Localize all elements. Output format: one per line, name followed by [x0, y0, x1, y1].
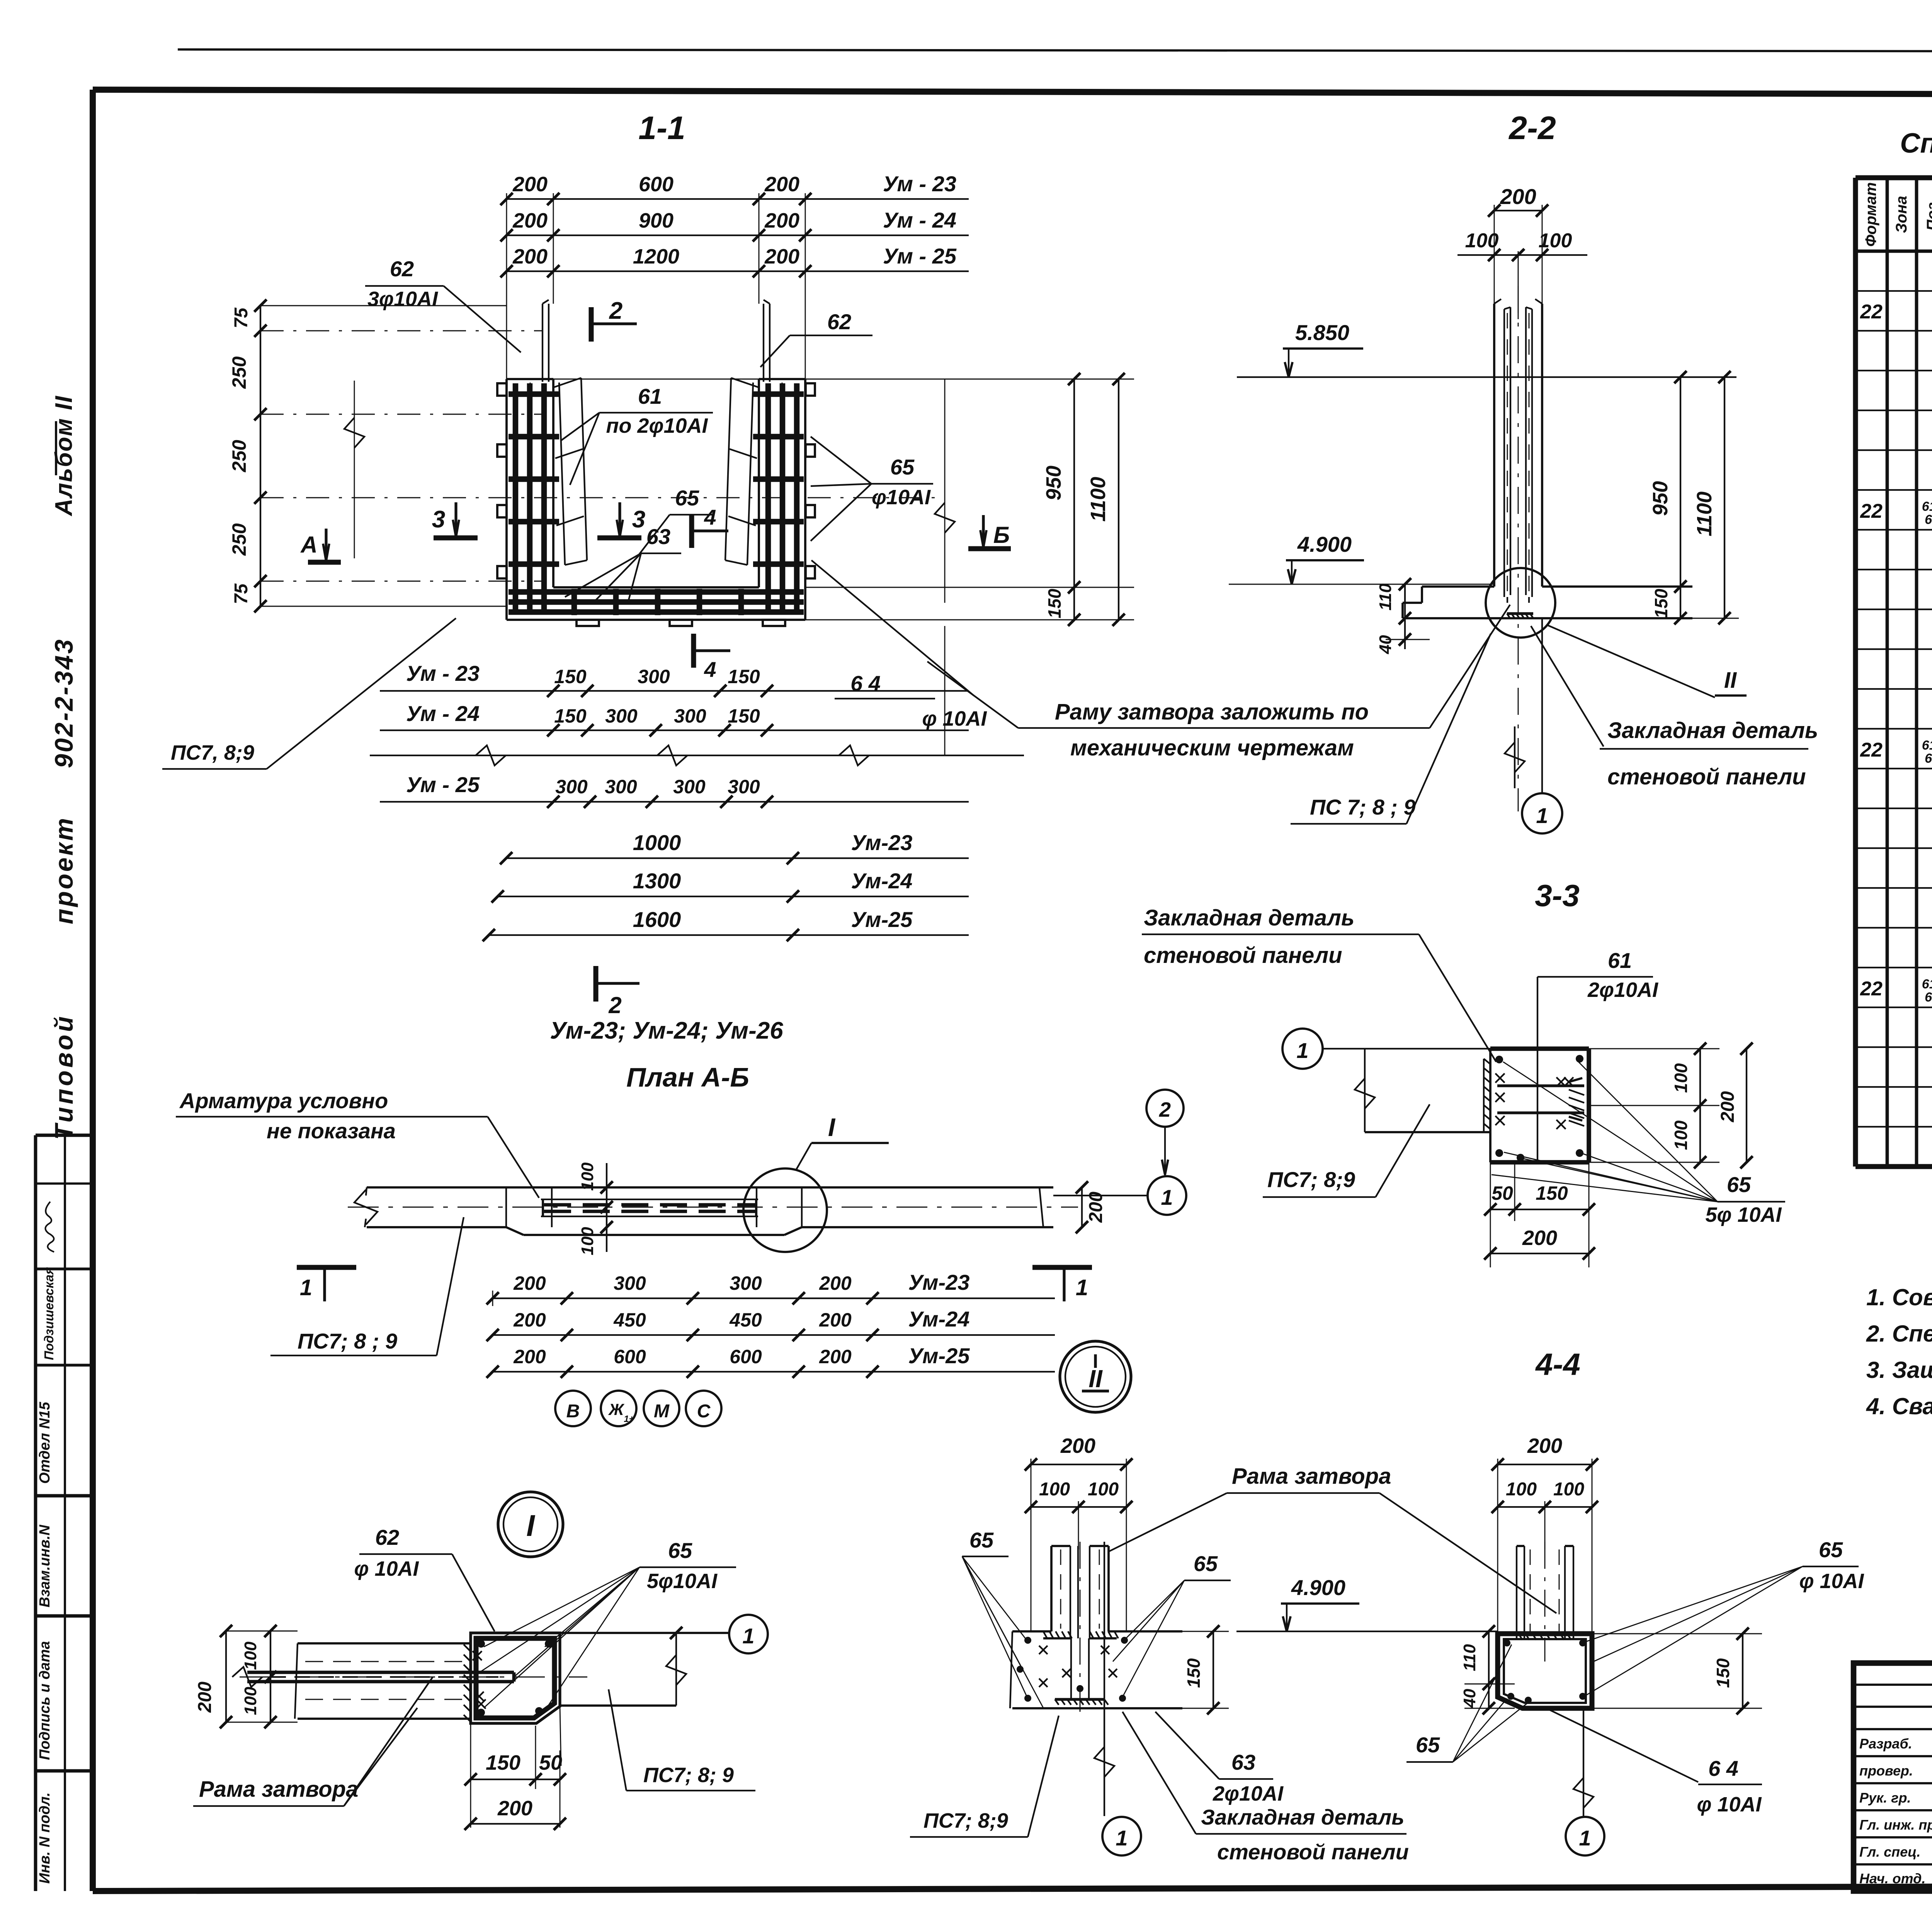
view 1-1 top dimension chain row Um-24	[507, 235, 805, 236]
svg-text:Гл. инж. пр.: Гл. инж. пр.	[1859, 1817, 1932, 1833]
svg-text:ПС7; 8;9: ПС7; 8;9	[1267, 1167, 1355, 1192]
svg-text:600: 600	[639, 173, 673, 196]
view 4-4 right wall panels	[1517, 1546, 1573, 1638]
view 2-2 left dim 110 40	[1404, 584, 1406, 618]
view 3-3 slab left part	[1364, 1049, 1366, 1132]
detail I grid circle 1	[729, 1615, 768, 1653]
svg-text:Ум - 25: Ум - 25	[406, 772, 480, 797]
view 4-4 left wall panels	[1051, 1546, 1109, 1638]
view 4-4 right dim 200	[1498, 1464, 1592, 1465]
view 2-2 embedded plate hatch	[1507, 614, 1533, 618]
svg-text:3. Защитный слой бето: 3. Защитный слой бетона - 25 мм	[1866, 1357, 1932, 1383]
plan right end dim 200	[1081, 1187, 1083, 1227]
svg-text:110: 110	[1460, 1644, 1479, 1671]
svg-text:100: 100	[1465, 230, 1499, 252]
svg-text:22: 22	[1860, 978, 1883, 1000]
svg-text:63: 63	[1231, 1750, 1255, 1774]
svg-text:ПС 7; 8 ; 9: ПС 7; 8 ; 9	[1310, 795, 1416, 819]
view 3-3 hatch strip at joint	[1484, 1059, 1490, 1132]
svg-text:Инв. N подл.: Инв. N подл.	[37, 1793, 53, 1884]
svg-text:110: 110	[1376, 583, 1395, 611]
svg-text:65: 65	[1819, 1537, 1843, 1562]
svg-text:450: 450	[729, 1309, 762, 1331]
view 1-1 inner formwork slant panels	[559, 383, 565, 565]
view 1-1 rebar bottom slab	[509, 589, 804, 615]
svg-text:61: 61	[1608, 948, 1632, 973]
view 1-1 U-channel outline	[507, 379, 805, 620]
svg-text:2: 2	[609, 298, 622, 324]
svg-text:150: 150	[1044, 588, 1065, 618]
svg-text:600: 600	[614, 1346, 646, 1367]
view 4-4 right block hatch top	[1519, 1634, 1571, 1640]
svg-text:902-2-343: 902-2-343	[49, 638, 78, 768]
view 1-1 overall dim 1600 Um-25	[489, 934, 793, 936]
svg-text:50: 50	[539, 1751, 562, 1774]
svg-text:300: 300	[730, 1272, 762, 1294]
svg-text:стеновой панели: стеновой панели	[1217, 1840, 1409, 1864]
svg-text:Ж: Ж	[608, 1400, 625, 1418]
svg-text:100: 100	[1506, 1479, 1537, 1500]
svg-text:300: 300	[673, 776, 706, 798]
svg-text:II: II	[1724, 668, 1737, 693]
svg-text:Подзишевская: Подзишевская	[42, 1267, 56, 1360]
svg-text:Арматура условно: Арматура условно	[179, 1088, 388, 1113]
svg-text:40: 40	[1460, 1689, 1479, 1708]
view 3-3 monolithic block outline	[1490, 1049, 1589, 1162]
svg-text:62: 62	[827, 310, 851, 334]
svg-text:1. Совместно с данным с: 1. Совместно с данным см. л.л. КЖ - 53.	[1866, 1284, 1932, 1310]
svg-text:Рук. гр.: Рук. гр.	[1859, 1790, 1911, 1806]
svg-text:300: 300	[674, 705, 706, 727]
svg-text:Закладная деталь: Закладная деталь	[1144, 905, 1354, 930]
svg-text:1300: 1300	[633, 869, 681, 893]
svg-text:механическим чертежам: механическим чертежам	[1070, 735, 1354, 760]
view 4-4 left dim 200	[1031, 1464, 1126, 1465]
svg-text:2. Спецификацию и выборку: 2. Спецификацию и выборку арматуры см. л…	[1866, 1321, 1932, 1347]
section mark A	[308, 560, 341, 565]
svg-text:ПС7; 8 ; 9: ПС7; 8 ; 9	[298, 1329, 397, 1353]
svg-text:Ум - 25: Ум - 25	[883, 244, 957, 268]
plan detail I circle	[743, 1168, 827, 1252]
plan dim row Um-23	[493, 1298, 872, 1299]
svg-text:200: 200	[513, 1309, 546, 1331]
svg-text:61÷: 61÷	[1922, 977, 1932, 992]
section mark 4 lower	[691, 634, 696, 668]
detail I anchor bars into square	[247, 1672, 514, 1682]
view 4-4 left dim 100 100	[1031, 1506, 1126, 1508]
svg-text:22: 22	[1860, 500, 1883, 522]
svg-text:I: I	[526, 1509, 535, 1543]
title block outline	[1854, 1663, 1932, 1891]
section mark B right	[968, 546, 1011, 551]
plan dim row Um-24	[493, 1334, 872, 1336]
view 3-3 dim 200 below	[1490, 1253, 1589, 1254]
svg-text:950: 950	[1649, 481, 1672, 516]
view 3-3 rebar dots	[1495, 1056, 1503, 1063]
svg-text:Закладная деталь: Закладная деталь	[1201, 1805, 1404, 1829]
svg-text:5φ10АI: 5φ10АI	[647, 1570, 718, 1593]
view 1-1 overall dim 1300 Um-24	[498, 896, 793, 897]
view 4-4 right grid circle 1	[1566, 1817, 1604, 1855]
svg-text:150: 150	[554, 666, 587, 687]
section mark 3 left	[434, 536, 478, 541]
plan section mark 1 right	[1032, 1265, 1092, 1270]
svg-text:200: 200	[513, 1272, 546, 1294]
svg-text:65: 65	[1416, 1733, 1440, 1757]
svg-text:1: 1	[1296, 1038, 1308, 1063]
svg-text:100: 100	[1671, 1120, 1691, 1150]
view 1-1 top dimension chain row Um-25	[507, 270, 805, 272]
svg-text:65: 65	[675, 486, 699, 510]
svg-text:4. Сварку производить эле: 4. Сварку производить электродами Э42, Г…	[1866, 1393, 1932, 1419]
plan right break	[1039, 1187, 1043, 1227]
svg-text:по 2φ10АI: по 2φ10АI	[606, 414, 708, 437]
svg-text:Ум-23: Ум-23	[851, 830, 913, 855]
view 3-3 bars 2f10AI	[1497, 1084, 1584, 1087]
svg-text:63: 63	[646, 524, 670, 549]
view 1-1 left wall form tabs	[497, 383, 507, 396]
detail I monolithic square outline	[471, 1633, 560, 1723]
plan dim 100 100 vertical	[606, 1163, 607, 1252]
svg-text:ПС7, 8;9: ПС7, 8;9	[171, 741, 254, 764]
svg-text:I: I	[828, 1113, 836, 1141]
svg-text:Ум-24: Ум-24	[908, 1307, 970, 1331]
svg-text:ПС7; 8;9: ПС7; 8;9	[923, 1809, 1008, 1832]
svg-text:100: 100	[1671, 1063, 1691, 1093]
view 3-3 dim 200 right	[1746, 1049, 1747, 1162]
view 1-1 slab support tabs	[577, 620, 599, 626]
view 2-2 right dim 1100	[1724, 377, 1725, 618]
svg-text:250: 250	[228, 440, 250, 473]
detail I chamfer corner extension	[560, 1706, 561, 1766]
view 4-4 left grid circle 1	[1102, 1817, 1141, 1855]
svg-text:75: 75	[231, 307, 252, 328]
plan axis circles V Zh M S	[555, 1391, 591, 1426]
view 4-4 right dim 150	[1592, 1633, 1762, 1634]
svg-text:Нач. отд.: Нач. отд.	[1859, 1871, 1925, 1886]
svg-text:100: 100	[241, 1641, 260, 1670]
view 2-2 dim 200 top	[1494, 210, 1542, 211]
svg-text:300: 300	[555, 776, 588, 798]
view 1-1 left dimension chain 75-250-250-250-75	[260, 306, 261, 606]
svg-text:4.900: 4.900	[1297, 532, 1352, 556]
svg-text:Ум-25: Ум-25	[908, 1344, 970, 1368]
svg-text:Поз.: Поз.	[1924, 198, 1932, 231]
svg-text:1: 1	[742, 1624, 754, 1648]
view 1-1 rebar cage left wall	[509, 383, 559, 614]
detail I precast wall left	[295, 1643, 471, 1719]
svg-text:Ум-23; Ум-24; Ум-26: Ум-23; Ум-24; Ум-26	[550, 1017, 783, 1044]
svg-text:2φ10АI: 2φ10АI	[1587, 978, 1658, 1002]
svg-text:200: 200	[1718, 1091, 1738, 1122]
svg-text:φ 10АI: φ 10АI	[1697, 1793, 1762, 1816]
svg-text:300: 300	[605, 776, 637, 798]
svg-text:Ум-25: Ум-25	[851, 907, 913, 932]
svg-text:200: 200	[819, 1309, 852, 1331]
plan rebar bundle	[541, 1199, 758, 1216]
view 4-4 right wall dashed centerline	[1544, 1542, 1546, 1662]
svg-text:1: 1	[1161, 1185, 1173, 1209]
svg-text:1+: 1+	[624, 1414, 634, 1424]
svg-text:200: 200	[512, 245, 548, 268]
plan left end break	[354, 1190, 378, 1225]
svg-text:Взам.инв.N: Взам.инв.N	[37, 1524, 53, 1607]
svg-text:План А-Б: План А-Б	[626, 1062, 749, 1092]
detail I joint hatch	[464, 1645, 471, 1722]
detail circle I marker	[498, 1492, 563, 1557]
view 1-1 right wall form tabs	[806, 383, 815, 396]
view 4-4 right block rebar dots	[1503, 1639, 1510, 1646]
svg-text:Б: Б	[993, 522, 1010, 548]
svg-text:стеновой панели: стеновой панели	[1144, 943, 1342, 968]
svg-text:С: С	[697, 1401, 711, 1422]
svg-text:150: 150	[486, 1751, 520, 1774]
stamp label signature squiggle	[45, 1202, 54, 1252]
view 2-2 frame inner dashed lines	[1507, 313, 1508, 593]
svg-text:200: 200	[1060, 1434, 1095, 1458]
svg-text:не показана: не показана	[267, 1119, 396, 1143]
svg-text:1: 1	[1579, 1826, 1591, 1850]
svg-text:В: В	[566, 1401, 580, 1422]
svg-text:22: 22	[1860, 739, 1883, 761]
view 4-4 right dim 110 40 left side	[1488, 1631, 1490, 1708]
svg-text:150: 150	[728, 705, 760, 727]
svg-text:6 4: 6 4	[850, 671, 881, 696]
svg-text:62: 62	[390, 257, 414, 281]
view 4-4 left slab	[1010, 1631, 1182, 1708]
svg-text:65: 65	[969, 1528, 994, 1552]
svg-text:провер.: провер.	[1859, 1763, 1913, 1779]
svg-text:100: 100	[1553, 1479, 1584, 1500]
svg-text:100: 100	[241, 1687, 260, 1715]
detail circle II marker	[1060, 1341, 1131, 1412]
svg-text:Закладная деталь: Закладная деталь	[1607, 718, 1818, 743]
svg-text:900: 900	[639, 209, 673, 232]
view 4-4 left wall dashed lines	[1060, 1549, 1061, 1629]
view 2-2 wall centerline	[1518, 286, 1519, 811]
view 1-1 horizontal extension lines to left chain	[260, 305, 507, 306]
svg-text:150: 150	[1713, 1658, 1733, 1688]
svg-text:200: 200	[512, 173, 548, 196]
svg-text:Ум - 24: Ум - 24	[883, 208, 956, 232]
svg-text:1200: 1200	[633, 245, 679, 268]
spec table grid	[1855, 178, 1932, 1167]
svg-text:ПС7; 8; 9: ПС7; 8; 9	[643, 1764, 734, 1787]
svg-text:4: 4	[704, 657, 716, 682]
detail I right wall	[560, 1632, 729, 1634]
detail I dim 200	[471, 1823, 560, 1825]
svg-text:450: 450	[613, 1309, 646, 1331]
plan grid circle 2 top	[1146, 1090, 1184, 1127]
svg-text:φ10АI: φ10АI	[872, 486, 931, 509]
svg-text:65: 65	[1925, 990, 1932, 1005]
plan centerline	[348, 1207, 1078, 1208]
svg-text:3φ10АI: 3φ10АI	[367, 287, 438, 311]
svg-text:950: 950	[1042, 466, 1065, 500]
view 2-2 right dim 950	[1680, 377, 1681, 587]
svg-text:200: 200	[195, 1682, 215, 1713]
detail I square rebar dots	[477, 1640, 485, 1648]
svg-text:150: 150	[554, 705, 587, 727]
view 2-2 break mark below wall	[1514, 726, 1515, 788]
svg-text:61÷: 61÷	[1922, 499, 1932, 514]
svg-text:стеновой панели: стеновой панели	[1607, 764, 1806, 789]
svg-text:Гл. спец.: Гл. спец.	[1859, 1844, 1920, 1860]
view 1-1 dimension extension verticals	[506, 193, 507, 379]
svg-text:200: 200	[764, 245, 799, 268]
svg-text:6 4: 6 4	[1708, 1756, 1738, 1781]
view 1-1 wall centerline dashes	[530, 383, 531, 585]
view 2-2 detail circle II	[1486, 568, 1555, 638]
svg-text:Подпись и дата: Подпись и дата	[37, 1641, 53, 1760]
svg-text:100: 100	[1539, 230, 1572, 252]
view 4-4 left detail rebar dots	[1024, 1637, 1031, 1644]
svg-text:проект: проект	[49, 816, 78, 924]
view 4-4 dim 150 left detail	[1182, 1631, 1229, 1632]
svg-text:200: 200	[764, 209, 799, 232]
view 1-1 right dimension 1100	[1118, 379, 1119, 620]
svg-text:3: 3	[432, 506, 445, 533]
svg-text:Разраб.: Разраб.	[1859, 1736, 1912, 1752]
svg-text:Ум-24: Ум-24	[851, 869, 913, 893]
detail I left dim 100 100	[270, 1631, 271, 1722]
svg-text:5.850: 5.850	[1295, 320, 1349, 345]
svg-text:100: 100	[1088, 1479, 1119, 1500]
svg-text:100: 100	[1039, 1479, 1070, 1500]
svg-text:2φ10АI: 2φ10АI	[1213, 1782, 1284, 1805]
detail I left dim 200	[225, 1631, 227, 1722]
title block left rows	[1854, 1685, 1932, 1864]
plan section mark 1 left	[297, 1265, 356, 1270]
view 1-1 top dimension chain row Um-23	[507, 198, 805, 200]
svg-text:65: 65	[668, 1538, 692, 1563]
svg-text:200: 200	[819, 1272, 852, 1294]
view 3-3 grid circle 1	[1282, 1029, 1323, 1069]
label 64 with leader	[811, 560, 974, 696]
view 4-4 left detail section line down	[1104, 1542, 1105, 1816]
svg-text:200: 200	[1500, 184, 1536, 209]
view 1-1 right dimension 150	[1068, 614, 1080, 626]
svg-text:22: 22	[1860, 301, 1883, 323]
view 1-1 right dimension 950	[805, 379, 1134, 380]
plan joint verticals	[505, 1187, 507, 1227]
plan grid circle 1 right	[1148, 1176, 1186, 1215]
view 3-3 x marks	[1495, 1073, 1505, 1083]
view 4-4 left detail x marks	[1039, 1646, 1048, 1654]
svg-text:1600: 1600	[633, 907, 681, 932]
svg-text:2-2: 2-2	[1508, 110, 1556, 146]
svg-text:3-3: 3-3	[1535, 878, 1580, 913]
plan dim row Um-25	[493, 1371, 872, 1372]
svg-text:А: А	[300, 532, 317, 558]
svg-text:Рама затвора: Рама затвора	[199, 1777, 358, 1802]
svg-text:Ум-23: Ум-23	[908, 1270, 970, 1294]
svg-text:Раму затвора заложить по: Раму затвора заложить по	[1055, 699, 1369, 724]
svg-text:Рама затвора: Рама затвора	[1232, 1464, 1391, 1489]
detail I centerline	[240, 1677, 587, 1678]
svg-text:75: 75	[231, 583, 252, 604]
svg-text:200: 200	[1522, 1226, 1557, 1250]
svg-text:65: 65	[1194, 1551, 1218, 1576]
svg-text:1100: 1100	[1087, 477, 1110, 522]
svg-text:65: 65	[890, 455, 915, 479]
svg-text:150: 150	[1536, 1182, 1568, 1204]
svg-text:250: 250	[228, 356, 250, 389]
svg-text:1: 1	[1076, 1275, 1088, 1300]
svg-text:Ум - 24: Ум - 24	[406, 701, 480, 726]
svg-text:φ 10АI: φ 10АI	[354, 1557, 419, 1580]
svg-text:300: 300	[614, 1272, 646, 1294]
view 2-2 grid circle 1 below	[1541, 618, 1543, 793]
svg-text:61: 61	[638, 384, 662, 408]
svg-text:200: 200	[497, 1797, 532, 1820]
svg-text:Отдел N15: Отдел N15	[37, 1401, 53, 1484]
view 3-3 dim 100 100 right	[1589, 1048, 1719, 1049]
svg-text:1: 1	[1536, 803, 1548, 828]
svg-text:200: 200	[1527, 1434, 1562, 1458]
view 2-2 embedded gate frame channels	[1504, 307, 1532, 603]
svg-text:2: 2	[1159, 1098, 1171, 1121]
view 2-2 wall outline	[1493, 304, 1495, 587]
svg-text:65: 65	[1727, 1172, 1751, 1197]
view 1-1 rebar cage right wall	[753, 383, 804, 614]
view 1-1 formwork panel lines left wall	[542, 304, 543, 382]
section mark 4 upper	[689, 514, 694, 548]
svg-text:Формат: Формат	[1862, 182, 1879, 247]
paper top edge dashed line	[178, 49, 1932, 51]
view 1-1 formwork panel lines right wall	[763, 304, 764, 382]
svg-text:Зона: Зона	[1893, 196, 1910, 233]
view 2-2 floor slab	[1403, 587, 1692, 618]
detail I wall inner lines	[305, 1661, 471, 1662]
view 1-1 overall dim 1000 Um-23	[506, 857, 793, 859]
svg-text:300: 300	[728, 776, 760, 798]
svg-text:Типовой: Типовой	[49, 1014, 78, 1140]
view 4-4 left detail hatch under wall	[1043, 1631, 1118, 1705]
view 3-3 dim 50 150 below	[1490, 1162, 1491, 1267]
svg-text:Альбом II: Альбом II	[51, 395, 77, 517]
view 2-2 right dim 150	[1680, 587, 1681, 618]
svg-text:1-1: 1-1	[638, 110, 685, 146]
left stamp column	[36, 1135, 92, 1891]
svg-text:65: 65	[1925, 751, 1932, 766]
view 2-2 dim 100 100	[1458, 254, 1587, 256]
view 1-1 long break line	[370, 755, 1024, 756]
svg-text:φ 10АI: φ 10АI	[1799, 1570, 1864, 1593]
view 4-4 right block outline	[1498, 1634, 1592, 1708]
view 4-4 label 64 f10AI	[1549, 1710, 1698, 1782]
svg-text:65: 65	[1925, 512, 1932, 527]
svg-text:Спецификация элементов моноли: Спецификация элементов монолитной констр…	[1900, 128, 1932, 159]
detail I x marks	[473, 1651, 482, 1660]
svg-text:4-4: 4-4	[1535, 1347, 1580, 1381]
svg-text:300: 300	[605, 705, 638, 727]
svg-text:40: 40	[1376, 635, 1395, 654]
svg-text:200: 200	[512, 209, 548, 232]
svg-text:600: 600	[730, 1346, 762, 1367]
svg-text:61÷: 61÷	[1922, 738, 1932, 753]
svg-text:50: 50	[1492, 1182, 1513, 1204]
svg-text:200: 200	[819, 1346, 852, 1367]
svg-text:150: 150	[1184, 1658, 1204, 1688]
svg-text:62: 62	[375, 1525, 399, 1549]
view 1-1 interior top level line	[553, 379, 759, 380]
view 4-4 right section line down	[1583, 1710, 1584, 1816]
svg-text:200: 200	[764, 173, 799, 196]
svg-text:1: 1	[300, 1275, 312, 1300]
svg-text:250: 250	[228, 523, 250, 556]
svg-text:1000: 1000	[633, 830, 681, 855]
